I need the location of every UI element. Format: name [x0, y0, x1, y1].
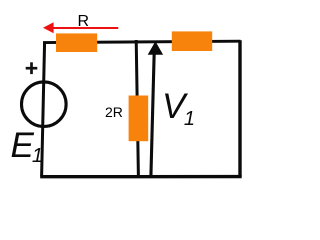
voltage arrow V1 (black, pointing up): [148, 41, 163, 176]
label V1: [162, 87, 195, 132]
voltage source E1 circle: [22, 82, 67, 127]
wire top horizontal: [43, 41, 241, 42]
polarity plus sign: [26, 62, 38, 74]
resistor 2R (vertical orange): [129, 96, 149, 142]
wire bottom horizontal: [40, 175, 242, 178]
resistor R (top left orange): [56, 33, 97, 52]
label R: [78, 13, 90, 31]
resistor top right (orange): [172, 31, 212, 51]
label E1: [11, 126, 43, 168]
wire left vertical: [42, 42, 45, 177]
wire right vertical: [238, 40, 241, 176]
wire middle branch (2R branch): [136, 40, 138, 177]
current arrow (red, pointing left over R): [43, 22, 118, 33]
label 2R: [105, 104, 123, 120]
